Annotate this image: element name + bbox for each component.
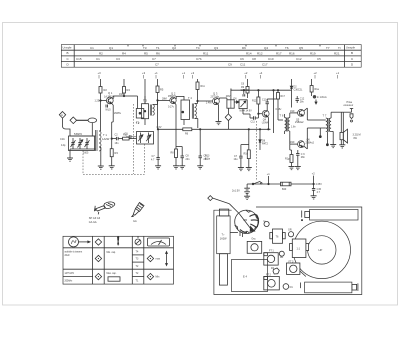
svg-text:T 6: T 6: [280, 114, 284, 118]
svg-text:Umspfe: Umspfe: [346, 46, 355, 50]
header: meter icon: [148, 238, 170, 246]
svg-text:Q4: Q4: [264, 46, 268, 50]
alignment legend table: [63, 236, 174, 284]
svg-text:R3: R3: [115, 151, 119, 155]
alignment tool 1: [89, 202, 115, 224]
trimmer C2: [85, 138, 90, 149]
svg-text:R12: R12: [252, 100, 257, 103]
svg-text:1.25v: 1.25v: [95, 100, 102, 103]
pot wiper down to switch (mech link drawn later): [242, 109, 244, 114]
svg-text:C15: C15: [76, 57, 82, 61]
transistor Q6: [298, 141, 305, 148]
board outline: [214, 207, 362, 295]
svg-text:B: B: [351, 51, 353, 55]
svg-text:C7b: C7b: [196, 57, 202, 61]
oscillator transformer T2: [128, 95, 138, 97]
svg-text:+3: +3: [191, 71, 195, 75]
svg-text:28n: 28n: [301, 156, 306, 159]
capacitor C4: [105, 105, 107, 108]
svg-text:T4: T4: [196, 46, 200, 50]
svg-text:T3: T3: [136, 258, 139, 261]
svg-text:T 4: T 4: [188, 96, 192, 100]
capacitor C10 top: [242, 94, 244, 96]
volume/switch mechanical dashed link: [256, 121, 258, 181]
small parts bottom: [279, 251, 284, 256]
svg-text:+1: +1: [182, 71, 186, 75]
svg-text:10u: 10u: [234, 158, 239, 161]
svg-text:+3: +3: [142, 71, 146, 75]
output transformer T7 module: [292, 239, 306, 258]
svg-text:3.2Ω M: 3.2Ω M: [353, 133, 361, 136]
svg-text:R12: R12: [257, 51, 263, 55]
svg-text:R14: R14: [246, 51, 252, 55]
secondary winding wires to Q1: [99, 130, 101, 132]
AGC rail: [157, 128, 271, 130]
svg-text:1.8v: 1.8v: [291, 125, 296, 128]
svg-text:B: B: [67, 51, 69, 55]
svg-text:T4: T4: [136, 251, 139, 254]
svg-text:R5: R5: [160, 88, 164, 92]
svg-text:T6: T6: [285, 46, 289, 50]
earphone jack: [343, 111, 351, 113]
svg-text:C11: C11: [251, 121, 256, 124]
svg-text:Q5: Q5: [299, 46, 303, 50]
svg-text:D6: D6: [234, 98, 238, 101]
svg-text:DR: DR: [280, 257, 284, 259]
top rail detector/AF: [231, 89, 292, 91]
svg-text:R1g: R1g: [285, 158, 290, 161]
svg-text:R2: R2: [104, 88, 108, 92]
Q4 collector up through C13: [266, 104, 268, 111]
Q2 emitter down: [175, 103, 176, 104]
header: probe icon: [118, 239, 119, 245]
emitter wire down: [112, 104, 113, 105]
capacitor C7: [157, 129, 159, 157]
transistor circle Q1: [283, 284, 289, 290]
tuning gang dashed enclosure: [83, 144, 144, 174]
svg-text:28v: 28v: [300, 101, 305, 104]
svg-text:Tr: Tr: [338, 46, 341, 50]
collector join line: [304, 108, 307, 111]
secondary to Q5 base: [289, 113, 291, 118]
resistor R2 top feed: [100, 79, 102, 87]
switch S1: [252, 183, 254, 185]
svg-text:+1: +1: [336, 71, 340, 75]
svg-text:C1: C1: [96, 57, 100, 61]
svg-text:Min: Min: [156, 276, 161, 279]
current measure note: [313, 96, 316, 99]
svg-text:R10: R10: [123, 134, 128, 137]
svg-text:2ST Ma: 2ST Ma: [211, 95, 220, 98]
svg-text:R16: R16: [289, 51, 295, 55]
svg-text:R16: R16: [244, 153, 249, 156]
svg-text:max: max: [156, 258, 161, 261]
svg-text:D: D: [67, 62, 70, 66]
wire from diamond A to tuned circuit: [63, 118, 71, 136]
feed line x=273.5: [273, 90, 275, 133]
svg-text:wobbler à travers: wobbler à travers: [65, 251, 83, 254]
svg-text:R11: R11: [201, 85, 206, 88]
svg-text:2.65V: 2.65V: [316, 183, 323, 186]
svg-text:SP G3 G3: SP G3 G3: [89, 217, 101, 220]
battery cell bottom: [305, 282, 352, 293]
svg-text:C2: C2: [115, 134, 119, 137]
svg-text:R2: R2: [99, 51, 103, 55]
svg-text:D: D: [351, 62, 354, 66]
battery compartment: [232, 260, 268, 292]
trimmer capacitor C1a: [71, 138, 76, 149]
variable capacitor C1: [78, 138, 83, 149]
svg-text:20uF: 20uF: [65, 255, 71, 257]
svg-text:R1a: R1a: [315, 88, 320, 91]
svg-text:C3: C3: [116, 57, 120, 61]
svg-text:T r: T r: [222, 234, 225, 237]
svg-text:In 1/3mA: In 1/3mA: [317, 96, 327, 99]
transistor Q5: [298, 110, 305, 117]
resistor R12 bias: [257, 104, 259, 114]
svg-text:C9: C9: [228, 62, 232, 66]
gang link dashed line to oscillator section: [133, 104, 135, 174]
resistor R17: [277, 90, 279, 92]
svg-text:Q3: Q3: [214, 46, 218, 50]
svg-text:R5: R5: [144, 51, 148, 55]
svg-text:C: C: [67, 57, 70, 61]
node A diamond test point: [59, 112, 65, 119]
svg-text:Min. cap.: Min. cap.: [107, 252, 117, 254]
svg-text:GA: GA: [133, 220, 137, 223]
transistor Q3: [213, 98, 220, 105]
diode D8 chain: [259, 129, 261, 140]
battery cell top: [310, 210, 359, 221]
resistor R3 under Q1 emitter: [112, 121, 114, 123]
svg-text:1A2W: 1A2W: [220, 238, 227, 241]
antenna tuned circuit C1a C1b: [69, 136, 95, 151]
header: diamond: [95, 239, 101, 245]
svg-text:2SB4u2: 2SB4u2: [306, 141, 315, 144]
bottom resistors R20 C14: [291, 150, 293, 155]
svg-text:Osc: Osc: [251, 238, 256, 241]
svg-text:R21: R21: [334, 51, 340, 55]
svg-text:R4T2: R4T2: [262, 143, 269, 146]
svg-text:R4: R4: [122, 51, 126, 55]
diode D2 bias: [291, 79, 293, 86]
svg-text:R11: R11: [203, 51, 209, 55]
padder cap C3 from T2 to gang: [126, 136, 129, 138]
svg-text:U2N4: U2N4: [262, 121, 269, 124]
secondary to Q6 base: [289, 131, 291, 144]
svg-text:+2: +2: [314, 71, 318, 75]
ferrite aerial rod: [219, 209, 228, 216]
svg-text:écouteur: écouteur: [344, 104, 354, 107]
IF transformer T4: [181, 100, 190, 120]
svg-text:FT 1: FT 1: [269, 250, 275, 253]
svg-text:A: A: [61, 113, 63, 117]
collector wire of Q1 going right: [112, 96, 114, 99]
svg-text:NIL5: NIL5: [106, 109, 112, 112]
svg-text:GR: GR: [288, 229, 292, 232]
svg-text:C6: C6: [240, 57, 244, 61]
supply tap labels under table: [98, 71, 340, 75]
wires of tuned circuit: [70, 135, 96, 137]
svg-text:4.7: 4.7: [151, 158, 155, 161]
svg-text:R8: R8: [171, 152, 175, 155]
svg-text:0.27v: 0.27v: [168, 106, 175, 109]
resistor R14 top: [247, 79, 249, 87]
svg-text:455kHz: 455kHz: [168, 95, 177, 98]
svg-text:2N95v: 2N95v: [114, 112, 122, 115]
svg-text:1A2W: 1A2W: [102, 137, 110, 141]
svg-text:C10: C10: [268, 57, 274, 61]
svg-text:T3: T3: [143, 46, 147, 50]
coupling cap C11 to Q4 base: [250, 117, 254, 119]
wire T4 secondary to Q3 base: [195, 103, 198, 105]
svg-text:B.5a: B.5a: [205, 158, 211, 161]
svg-text:+1: +1: [155, 71, 159, 75]
svg-text:HP: HP: [319, 248, 323, 252]
svg-text:C7: C7: [152, 57, 156, 61]
svg-text:C8: C8: [252, 57, 256, 61]
svg-text:RR: RR: [244, 218, 248, 222]
svg-text:C6: C6: [241, 83, 245, 86]
resistor R11 feed: [197, 79, 199, 82]
IF transformer T5 detector: [227, 100, 234, 108]
aerial coil T1: [96, 130, 102, 151]
svg-text:T 1: T 1: [103, 133, 107, 137]
svg-text:T7: T7: [326, 46, 330, 50]
svg-text:T6: T6: [276, 236, 280, 239]
PCB component layout: [208, 196, 362, 295]
Q3 emitter to ground: [217, 103, 220, 106]
svg-text:Max. cap.: Max. cap.: [107, 273, 117, 275]
resistor R5 top: [157, 79, 159, 86]
svg-text:1N9: 1N9: [290, 141, 295, 144]
driver transformer T6 module: [273, 229, 283, 243]
wire mixer collector to T3: [153, 104, 158, 106]
svg-text:R4: R4: [127, 88, 131, 92]
volume control RV: [239, 100, 247, 109]
svg-text:T 7: T 7: [323, 114, 327, 118]
resistor R4 top: [123, 79, 125, 87]
svg-text:R6: R6: [156, 51, 160, 55]
battery B1: [246, 184, 248, 188]
svg-text:1N9: 1N9: [290, 110, 295, 113]
svg-text:T2: T2: [136, 272, 139, 275]
header: trimmer icon: [135, 239, 141, 245]
ground antenna: [67, 158, 73, 161]
svg-text:GA GA: GA GA: [89, 221, 97, 224]
svg-text:2RV: 2RV: [226, 95, 231, 98]
svg-text:8Ω: 8Ω: [354, 137, 357, 140]
svg-text:C12: C12: [296, 57, 302, 61]
Q3 collector to detector transformer T5: [218, 98, 220, 100]
diode D6 detector: [234, 101, 236, 103]
svg-text:R17: R17: [281, 95, 286, 98]
svg-text:T 2: T 2: [136, 122, 140, 125]
transistor Q2: [170, 97, 176, 103]
svg-text:0.65v: 0.65v: [276, 108, 283, 111]
svg-text:Q2: Q2: [172, 46, 176, 50]
driver transformer T6: [278, 119, 283, 121]
svg-text:28M: 28M: [162, 98, 167, 101]
loudspeaker on board: [293, 221, 350, 278]
svg-text:NW4 14.9V: NW4 14.9V: [240, 109, 253, 112]
resistor R6 on AGC rail: [183, 128, 192, 131]
output transformer T7: [326, 118, 328, 132]
svg-text:205kHz: 205kHz: [65, 280, 74, 282]
svg-text:T2: T2: [136, 265, 139, 268]
oscillator gang section C1c C1d: [137, 132, 154, 145]
alignment tool 2: [132, 202, 144, 222]
svg-text:T1: T1: [156, 46, 160, 50]
secondary to speaker: [330, 112, 332, 118]
row2: [63, 276, 93, 278]
svg-text:C11: C11: [240, 62, 246, 66]
transistor Q4: [262, 110, 269, 117]
svg-text:R19: R19: [310, 51, 316, 55]
transistor Q1: [106, 97, 113, 104]
svg-text:C: C: [351, 57, 354, 61]
svg-text:C5: C5: [317, 57, 321, 61]
svg-text:C36C2L: C36C2L: [294, 89, 303, 92]
resistor R8 and cap C8 under Q2 emitter: [175, 128, 177, 149]
circle Ia: [264, 221, 269, 226]
svg-text:Umspfe: Umspfe: [63, 46, 72, 50]
svg-text:2SB4u2: 2SB4u2: [295, 121, 304, 124]
capacitor C9: [199, 129, 201, 156]
svg-text:14p: 14p: [61, 143, 66, 147]
Q4 collector junction to driver: [267, 98, 278, 100]
svg-text:Q1: Q1: [109, 46, 113, 50]
svg-text:1:1: 1:1: [297, 248, 301, 251]
svg-text:+1: +1: [267, 172, 271, 176]
svg-text:D1: D1: [290, 286, 294, 289]
Q2 collector to T4: [175, 96, 177, 99]
capacitor C15: [312, 188, 315, 190]
svg-text:B20: B20: [282, 188, 287, 191]
node B diamond test point: [70, 117, 77, 124]
battery rail: [253, 183, 314, 185]
svg-text:1.46v: 1.46v: [206, 101, 213, 104]
IF transformer T3: [142, 104, 149, 119]
svg-text:545kHz: 545kHz: [74, 133, 83, 136]
svg-text:2x1.5V: 2x1.5V: [232, 190, 240, 193]
resistor R19 top: [311, 79, 313, 86]
reference table: [61, 45, 361, 68]
svg-text:1605: 1605: [83, 152, 89, 155]
svg-text:+4: +4: [259, 71, 263, 75]
node diamond test lead: [208, 196, 213, 201]
circle GR: [288, 232, 293, 237]
svg-text:E 4: E 4: [243, 275, 247, 279]
capacitor C12: [296, 98, 299, 100]
C2 R10 feedback chain: [111, 138, 112, 139]
svg-text:R17: R17: [276, 51, 282, 55]
svg-text:+2: +2: [312, 171, 316, 175]
transistor blob Q2: [273, 268, 279, 274]
svg-text:C7: C7: [155, 62, 159, 66]
svg-text:D6: D6: [242, 46, 246, 50]
ground T1 secondary: [98, 166, 104, 169]
svg-text:20n: 20n: [186, 158, 191, 161]
tuning capacitor: [235, 210, 258, 233]
svg-text:C1: C1: [90, 46, 94, 50]
resistor R22: [281, 182, 292, 186]
Q4 emitter down to rail: [267, 116, 270, 119]
node D diamond test point: [227, 108, 229, 114]
svg-text:4.7: 4.7: [317, 191, 321, 194]
svg-text:R6: R6: [185, 132, 189, 135]
ground R3: [109, 166, 115, 169]
svg-text:+2: +2: [244, 71, 248, 75]
svg-text:16n: 16n: [115, 142, 120, 145]
loudspeaker LS: [340, 132, 343, 139]
svg-text:1475 kHz: 1475 kHz: [65, 273, 76, 275]
header: generator icon: [69, 237, 79, 247]
svg-text:T1: T1: [136, 280, 139, 283]
svg-text:C17: C17: [262, 62, 268, 66]
svg-text:+3: +3: [98, 71, 102, 75]
ferrite rod aerial symbol: [77, 119, 88, 121]
svg-text:C13: C13: [262, 99, 267, 102]
svg-text:C1b: C1b: [60, 137, 65, 141]
decoupling C14 R16 under rail: [248, 129, 249, 130]
